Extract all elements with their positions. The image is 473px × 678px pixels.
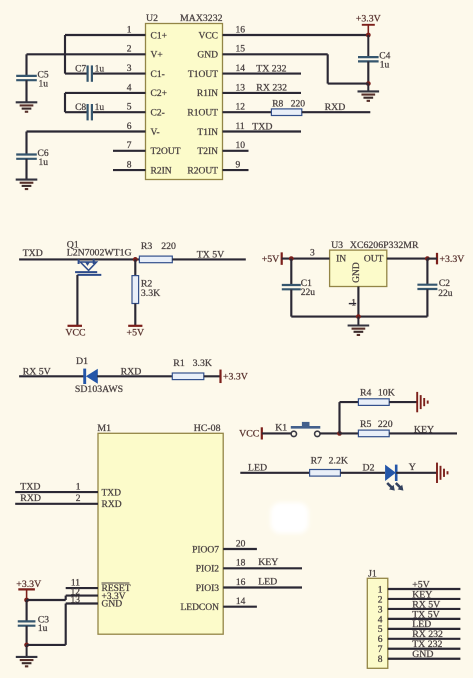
- svg-text:11: 11: [236, 122, 245, 132]
- svg-text:C1-: C1-: [151, 70, 165, 80]
- svg-text:KEY: KEY: [414, 424, 434, 435]
- svg-text:V+: V+: [151, 51, 163, 61]
- svg-text:C2-: C2-: [151, 109, 165, 119]
- svg-text:1u: 1u: [380, 61, 390, 71]
- svg-text:1: 1: [378, 585, 383, 595]
- svg-text:R1IN: R1IN: [197, 89, 218, 99]
- svg-text:C2+: C2+: [151, 89, 167, 99]
- svg-text:C1+: C1+: [151, 31, 167, 41]
- svg-text:U2: U2: [146, 13, 158, 24]
- svg-text:R2OUT: R2OUT: [187, 166, 218, 176]
- svg-text:6: 6: [127, 122, 132, 132]
- svg-text:R8: R8: [272, 99, 283, 109]
- svg-text:+5V: +5V: [127, 327, 145, 338]
- svg-text:9: 9: [236, 161, 241, 171]
- svg-text:220: 220: [161, 241, 176, 252]
- svg-text:14: 14: [236, 597, 246, 607]
- svg-text:R1OUT: R1OUT: [187, 109, 218, 119]
- svg-text:PIOI2: PIOI2: [196, 565, 219, 575]
- svg-text:GND: GND: [102, 600, 123, 610]
- svg-text:7: 7: [378, 645, 383, 655]
- svg-text:22u: 22u: [438, 289, 453, 299]
- svg-text:J1: J1: [368, 568, 377, 579]
- svg-text:M1: M1: [97, 423, 111, 434]
- svg-text:2: 2: [127, 45, 132, 55]
- svg-text:3: 3: [378, 605, 383, 615]
- svg-text:VCC: VCC: [65, 327, 85, 338]
- svg-text:PIOI3: PIOI3: [196, 584, 219, 594]
- svg-text:1u: 1u: [95, 103, 105, 113]
- svg-text:22u: 22u: [301, 288, 316, 298]
- svg-text:1u: 1u: [39, 79, 49, 89]
- svg-text:RXD: RXD: [102, 500, 122, 510]
- svg-text:1u: 1u: [39, 158, 49, 168]
- svg-text:R2IN: R2IN: [151, 166, 172, 176]
- svg-text:+3.3V: +3.3V: [440, 254, 465, 265]
- svg-text:+3.3V: +3.3V: [16, 579, 41, 590]
- svg-text:RXD: RXD: [325, 102, 346, 113]
- svg-text:14: 14: [236, 64, 246, 74]
- svg-text:SD103AWS: SD103AWS: [75, 384, 123, 395]
- svg-text:TXD: TXD: [252, 121, 272, 132]
- svg-text:220: 220: [378, 419, 393, 430]
- svg-text:R7: R7: [311, 456, 323, 467]
- svg-text:VCC: VCC: [198, 31, 218, 41]
- svg-text:5: 5: [127, 103, 132, 113]
- svg-text:13: 13: [236, 83, 246, 93]
- svg-text:3.3K: 3.3K: [141, 288, 160, 299]
- svg-text:C7: C7: [75, 65, 86, 75]
- svg-text:R3: R3: [141, 241, 153, 252]
- svg-text:TX 5V: TX 5V: [197, 249, 224, 260]
- svg-text:VCC: VCC: [239, 429, 259, 440]
- svg-text:TXD: TXD: [20, 482, 40, 493]
- svg-text:1u: 1u: [38, 624, 48, 634]
- svg-text:8: 8: [378, 655, 383, 665]
- svg-text:T2OUT: T2OUT: [151, 147, 181, 157]
- svg-text:LED: LED: [258, 576, 277, 587]
- svg-text:10: 10: [236, 141, 246, 151]
- svg-text:MAX3232: MAX3232: [180, 13, 223, 24]
- svg-text:R1: R1: [173, 358, 185, 369]
- svg-text:C2: C2: [439, 279, 450, 289]
- svg-text:1: 1: [76, 483, 81, 493]
- svg-text:OUT: OUT: [364, 254, 384, 264]
- svg-text:18: 18: [236, 559, 246, 569]
- svg-text:GND: GND: [352, 262, 362, 283]
- svg-text:HC-08: HC-08: [194, 423, 221, 434]
- svg-text:T2IN: T2IN: [197, 147, 218, 157]
- svg-text:+5V: +5V: [262, 254, 280, 265]
- svg-text:Y: Y: [409, 462, 416, 473]
- svg-text:7: 7: [127, 141, 132, 151]
- svg-text:3: 3: [310, 249, 315, 259]
- svg-text:+3.3V: +3.3V: [356, 14, 381, 25]
- svg-text:LEDCON: LEDCON: [180, 603, 219, 613]
- svg-text:K1: K1: [275, 423, 287, 434]
- svg-text:3.3K: 3.3K: [193, 358, 212, 369]
- svg-text:6: 6: [378, 635, 383, 645]
- svg-text:KEY: KEY: [258, 557, 278, 568]
- svg-text:5: 5: [378, 625, 383, 635]
- svg-text:TXD: TXD: [23, 248, 43, 259]
- svg-text:RX 232: RX 232: [256, 83, 287, 94]
- svg-text:10K: 10K: [378, 388, 395, 399]
- svg-text:15: 15: [236, 45, 246, 55]
- svg-text:V-: V-: [151, 128, 160, 138]
- svg-text:16: 16: [236, 25, 246, 35]
- svg-text:20: 20: [236, 540, 246, 550]
- svg-text:C8: C8: [75, 103, 86, 113]
- svg-text:4: 4: [378, 615, 383, 625]
- svg-text:220: 220: [291, 99, 306, 109]
- svg-text:D2: D2: [363, 463, 375, 474]
- svg-text:2.2K: 2.2K: [329, 456, 348, 467]
- svg-text:RXD: RXD: [121, 366, 142, 377]
- svg-text:GND: GND: [197, 51, 218, 61]
- svg-text:2: 2: [76, 494, 81, 504]
- svg-text:8: 8: [127, 161, 132, 171]
- svg-text:RXD: RXD: [20, 493, 41, 504]
- svg-text:U3: U3: [331, 240, 343, 251]
- svg-text:1u: 1u: [95, 65, 105, 75]
- svg-text:R5: R5: [360, 419, 372, 430]
- svg-text:2: 2: [378, 595, 383, 605]
- svg-text:4: 4: [127, 83, 132, 93]
- svg-text:TXD: TXD: [102, 488, 122, 498]
- svg-text:16: 16: [236, 578, 246, 588]
- svg-text:12: 12: [236, 103, 246, 113]
- svg-text:13: 13: [71, 595, 81, 605]
- svg-text:PIOO7: PIOO7: [192, 545, 219, 555]
- svg-text:L2N7002WT1G: L2N7002WT1G: [67, 248, 132, 259]
- svg-text:IN: IN: [336, 254, 346, 264]
- svg-text:D1: D1: [76, 356, 88, 367]
- svg-text:T1IN: T1IN: [197, 128, 218, 138]
- svg-text:TX 232: TX 232: [256, 63, 286, 74]
- svg-text:T1OUT: T1OUT: [188, 70, 218, 80]
- svg-text:1: 1: [127, 25, 132, 35]
- svg-text:XC6206P332MR: XC6206P332MR: [350, 240, 419, 251]
- svg-text:+3.3V: +3.3V: [223, 372, 248, 383]
- svg-text:R4: R4: [360, 388, 372, 399]
- svg-text:GND: GND: [412, 649, 433, 660]
- svg-text:3: 3: [127, 64, 132, 74]
